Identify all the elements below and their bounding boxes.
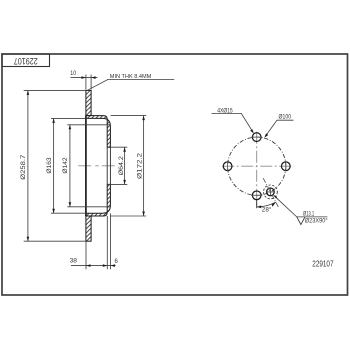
svg-text:38: 38 (70, 258, 78, 265)
dimension D258.7 (20, 90, 86, 241)
note MIN THK 8.4MM with leader (88, 74, 175, 90)
label 4XD15 with leader (212, 108, 254, 134)
bolt circle D100 (dash-dot) (228, 137, 286, 195)
hat elbow + mounting wall top (hatched) (86, 116, 111, 148)
bolt hole N (251, 133, 262, 142)
svg-text:Ø64.2: Ø64.2 (118, 156, 125, 175)
svg-text:Ø13.1: Ø13.1 (303, 211, 315, 218)
bolt hole S (251, 191, 262, 200)
title box top-left (2, 54, 50, 67)
vertical centerline (256, 130, 258, 208)
svg-text:Ø172.2: Ø172.2 (137, 153, 144, 179)
drawing frame border (2, 54, 348, 295)
dimension D64.2 (107, 147, 127, 184)
label D100 with leader (264, 114, 293, 138)
dimension 38 and 6 (bottom) (70, 213, 119, 269)
svg-text:229107: 229107 (312, 258, 333, 268)
rotated hole D13.1 with chamfer D23 (263, 178, 278, 207)
svg-text:229107: 229107 (14, 56, 38, 66)
svg-text:6: 6 (115, 258, 119, 265)
label D13.1 / D23X90 with leader (273, 195, 328, 225)
bolt hole E (281, 161, 290, 172)
dimension D142 (62, 125, 110, 207)
bolt hole W (223, 161, 232, 172)
svg-text:Ø163: Ø163 (46, 157, 53, 173)
dimension D163 (46, 118, 86, 213)
bore edge lines through hub hole (106, 147, 108, 184)
dark segment below S hole (256, 200, 258, 208)
disc ring top (hatched) (86, 90, 91, 115)
svg-text:Ø258.7: Ø258.7 (20, 154, 27, 179)
horizontal centerline (220, 165, 295, 167)
svg-text:MIN THK 8.4MM: MIN THK 8.4MM (110, 74, 152, 80)
28 deg arc with arrows (257, 202, 276, 214)
disc ring bottom (hatched) (86, 216, 91, 241)
svg-text:28°: 28° (262, 206, 272, 214)
centerline left view (78, 165, 115, 167)
svg-text:10: 10 (70, 70, 76, 77)
disc left face line (thick, full height) (85, 116, 87, 216)
svg-text:Ø100: Ø100 (279, 114, 292, 121)
dimension D172.2 (111, 116, 147, 216)
hat elbow + mounting wall bottom (hatched) (86, 184, 111, 216)
svg-text:Ø23X90°: Ø23X90° (305, 218, 328, 225)
dimension 10 (disc thickness) (70, 70, 97, 90)
svg-text:Ø142: Ø142 (62, 157, 69, 173)
